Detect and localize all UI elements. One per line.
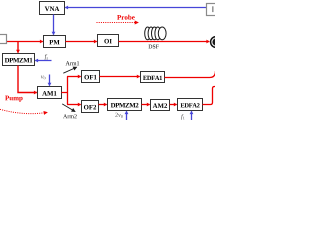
wire: OF1 to EDFA1 — [100, 76, 140, 78]
wire: AM1 split to two arms — [62, 77, 68, 105]
wire: dashed probe arrow — [97, 22, 139, 24]
node junction to DPMZM1 — [17, 42, 19, 53]
box EDFA1 — [141, 72, 165, 83]
label f1 — [181, 114, 185, 120]
wire: EDFA1 to right edge, curving up — [165, 71, 216, 78]
label DSF — [148, 45, 158, 49]
box OI — [98, 35, 119, 47]
wire: DPMZM1 down to AM1 — [18, 66, 37, 93]
wire: arm1 into OF1 — [67, 76, 81, 78]
wire: blue RF into EDFA2 — [191, 111, 193, 120]
wire: OI to photodetector through DSF — [119, 41, 210, 43]
wire: PM to OI — [66, 41, 97, 43]
label v0 — [41, 76, 46, 80]
box PM — [44, 36, 66, 48]
wire: blue RF into DPMZM1 — [35, 60, 51, 62]
wire: dashed pump arrow — [0, 109, 47, 113]
label Pump — [5, 96, 22, 102]
box EDFA2 — [178, 99, 203, 111]
label Probe — [117, 15, 135, 20]
box AM1 — [38, 87, 62, 99]
wire: OF2 to DPMZM2 — [99, 104, 107, 106]
label 2v0 — [115, 113, 123, 118]
box DPMZM1 — [3, 54, 35, 66]
wire: EDFA2 to right edge going up — [203, 87, 216, 105]
box OF1 — [82, 71, 100, 83]
label Arm1 with arrow — [63, 61, 79, 73]
label fs — [45, 54, 48, 60]
box top-right (clipped) — [207, 4, 219, 16]
box AM2 — [151, 100, 170, 111]
wire: blue RF into DPMZM2 — [126, 111, 128, 120]
photodetector PD (clipped circle at right edge) — [211, 37, 222, 48]
box DPMZM2 — [108, 99, 142, 111]
wire: blue VNA to PM — [53, 15, 55, 35]
wire: main red bus from LD to PM — [7, 41, 43, 43]
wire: blue from right box to VNA — [65, 7, 206, 9]
box OF2 — [82, 101, 99, 113]
wire: DPMZM2 to AM2 — [142, 104, 150, 106]
wire: AM2 to EDFA2 — [170, 104, 177, 106]
fiber coil DSF — [145, 27, 166, 40]
label Arm2 with arrow — [62, 104, 76, 118]
wire: arm2 into OF2 — [67, 104, 81, 106]
wire: blue RF into AM1 — [49, 75, 51, 86]
laser LD (clipped at left edge) — [0, 35, 7, 44]
box VNA — [40, 2, 65, 15]
